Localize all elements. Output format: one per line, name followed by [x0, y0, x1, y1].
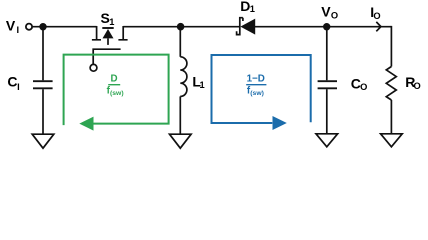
svg-text:C: C	[7, 74, 17, 90]
svg-text:O: O	[373, 11, 380, 21]
gate terminal circle	[90, 64, 97, 71]
svg-text:I: I	[17, 25, 20, 35]
node junction dot at L1	[177, 23, 185, 31]
svg-text:O: O	[331, 11, 338, 21]
node junction dot V_O	[323, 23, 330, 30]
capacitor C_I	[33, 81, 53, 88]
transistor S1 gate bar and gate lead	[93, 49, 120, 64]
svg-text:(sw): (sw)	[110, 90, 124, 97]
diode D1 triangle	[240, 19, 255, 35]
wire S1 to D1 through node L	[123, 26, 239, 28]
wire C_I to ground	[42, 89, 44, 134]
svg-text:D: D	[111, 73, 118, 84]
wire D1 to output corner	[255, 26, 392, 28]
transistor S1 right lead	[118, 26, 127, 40]
blue off-time current loop	[212, 55, 311, 123]
transistor S1 body diode	[102, 28, 113, 45]
ground (C_I)	[32, 134, 54, 148]
wire node to L1	[179, 27, 181, 57]
svg-text:I: I	[17, 82, 20, 92]
wire V_O node down to C_O	[326, 27, 328, 81]
svg-text:V: V	[6, 18, 16, 34]
capacitor C_O	[318, 81, 337, 88]
svg-text:(sw): (sw)	[250, 90, 264, 97]
ground (R_O)	[381, 134, 403, 147]
wire output corner down to R_O	[390, 26, 392, 67]
label 1-D over f(sw) (blue)	[247, 73, 265, 97]
green loop arrowhead	[79, 117, 93, 131]
blue fraction bar	[246, 84, 266, 86]
green on-time current loop	[64, 55, 169, 126]
svg-text:V: V	[321, 4, 331, 20]
ground (L1)	[170, 134, 192, 148]
blue loop arrowhead	[273, 116, 287, 130]
wire node to C_I	[42, 27, 44, 81]
svg-text:1: 1	[109, 17, 114, 27]
svg-text:O: O	[414, 81, 421, 91]
svg-text:O: O	[360, 82, 367, 92]
resistor R_O	[386, 67, 396, 101]
diode D1 schottky cathode bar	[237, 18, 243, 35]
svg-text:1: 1	[200, 80, 205, 90]
inductor L1	[180, 57, 187, 97]
transistor S1 left lead	[92, 26, 101, 40]
current arrow I_O chevron	[376, 22, 381, 31]
ground (C_O)	[316, 134, 338, 147]
node junction dot at C_I tap	[39, 23, 46, 30]
terminal circle V_I	[26, 24, 32, 30]
label D over f(sw) (green)	[107, 73, 124, 97]
wire main top rail V_I to S1	[32, 26, 97, 28]
svg-text:1−D: 1−D	[247, 73, 265, 84]
green fraction bar	[108, 84, 120, 86]
wire C_O to ground	[326, 89, 328, 134]
wire L1 to ground	[179, 96, 181, 134]
wire R_O to ground	[390, 100, 392, 134]
svg-text:1: 1	[250, 4, 255, 14]
